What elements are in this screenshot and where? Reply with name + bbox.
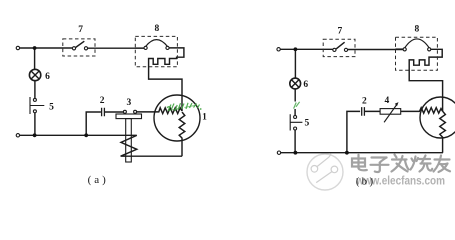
svg-text:2: 2	[362, 97, 367, 107]
svg-text:8: 8	[155, 24, 160, 34]
svg-text:5: 5	[305, 119, 310, 129]
svg-text:2: 2	[100, 96, 105, 106]
svg-text:1: 1	[202, 113, 207, 123]
svg-text:7: 7	[78, 25, 83, 35]
svg-text:6: 6	[45, 72, 50, 82]
svg-text:6: 6	[303, 80, 308, 90]
svg-text:4: 4	[385, 96, 390, 106]
svg-text:5: 5	[49, 103, 54, 113]
svg-text:(a): (a)	[88, 174, 109, 186]
svg-text:8: 8	[415, 24, 420, 34]
svg-text:3: 3	[127, 98, 132, 108]
svg-text:7: 7	[338, 26, 343, 36]
svg-text:(b): (b)	[356, 177, 376, 188]
